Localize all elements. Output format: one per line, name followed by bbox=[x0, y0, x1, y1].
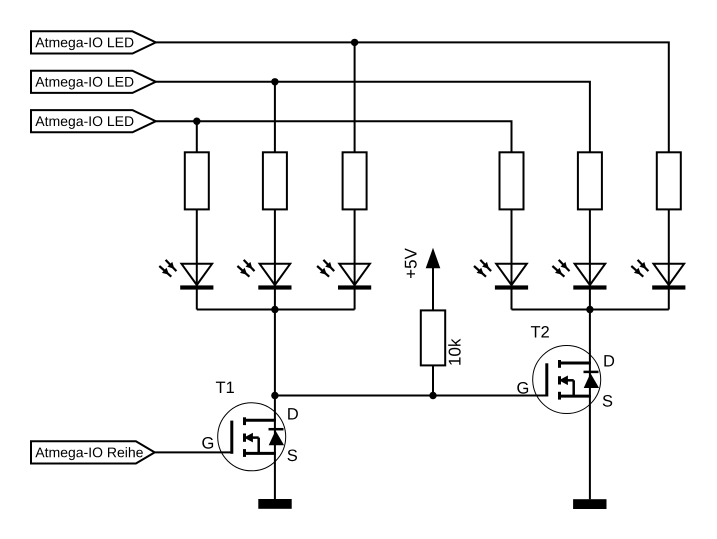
pin label S of T2 bbox=[603, 395, 613, 407]
LED D5 bbox=[552, 260, 606, 290]
junction row2/R2 bbox=[271, 78, 278, 85]
resistor R1 bbox=[185, 152, 209, 209]
junction 10k bottom node bbox=[429, 392, 436, 399]
resistor R4 bbox=[500, 152, 524, 209]
wire right bus down through T2 to ground bbox=[589, 310, 591, 500]
pin label D of T2 bbox=[604, 355, 614, 366]
pin label G of T1 bbox=[202, 437, 213, 449]
resistor R5 bbox=[578, 152, 602, 209]
junction T1 drain node bbox=[271, 392, 278, 399]
+5V supply symbol bbox=[405, 248, 441, 311]
junction row3/R1 bbox=[193, 118, 200, 125]
junction left bus / T1 drain column bbox=[271, 306, 278, 313]
resistor R3 bbox=[343, 152, 367, 209]
wire R1 bottom through LED D1 to bus bbox=[196, 209, 198, 309]
transistor T1 (N-MOSFET) bbox=[218, 403, 286, 471]
wire drop row1 to R3 bbox=[354, 42, 356, 152]
resistor R2 bbox=[263, 152, 287, 209]
wire flag4 to T1 gate bbox=[155, 451, 231, 453]
resistor R7 10k pull-up bbox=[421, 310, 461, 365]
ground under T1 bbox=[258, 499, 291, 509]
ground under T2 bbox=[573, 499, 606, 509]
wire left bus down through T1 to ground bbox=[274, 310, 276, 500]
LED D2 bbox=[237, 260, 291, 290]
wire row2: flag2 to R5 top bbox=[156, 82, 590, 153]
wire R5 bottom through LED D5 to bus bbox=[589, 209, 591, 309]
wire drop row2 to R2 bbox=[274, 82, 276, 153]
wire row3: flag3 to R4 top bbox=[156, 121, 512, 152]
resistor R6 bbox=[657, 152, 681, 209]
pin label G of T2 bbox=[517, 382, 528, 394]
junction right bus / T2 drain column bbox=[586, 306, 593, 313]
net label "Atmega-IO LED" (flag3) bbox=[31, 110, 156, 132]
LED D6 bbox=[631, 260, 685, 290]
wire R3 bottom through LED D3 to bus bbox=[354, 209, 356, 309]
wire row1: flag1 to R6 top bbox=[156, 42, 669, 152]
wire 10k bottom to mid wire bbox=[432, 365, 434, 395]
wire right LED cathode bus bbox=[512, 309, 669, 311]
pin label T1 of T1 bbox=[216, 382, 234, 393]
LED D1 bbox=[159, 260, 213, 290]
LED D3 bbox=[317, 260, 371, 290]
pin label D of T1 bbox=[288, 408, 298, 419]
wire R4 bottom through LED D4 to bus bbox=[511, 209, 513, 309]
junction row1/R3 bbox=[351, 39, 358, 46]
wire drop row3 to R1 bbox=[196, 121, 198, 152]
net label "Atmega-IO Reihe" (flag4) bbox=[31, 441, 155, 463]
pin label S of T1 bbox=[288, 450, 298, 462]
wire R2 bottom through LED D2 to bus bbox=[274, 209, 276, 309]
pin label T2 of T2 bbox=[531, 326, 549, 338]
LED D4 bbox=[474, 260, 528, 290]
wire T1 drain to 10k bottom to T2 gate bbox=[275, 395, 547, 397]
transistor T2 (N-MOSFET) bbox=[533, 346, 601, 414]
wire left LED cathode bus bbox=[197, 309, 355, 311]
net label "Atmega-IO LED" (flag1) bbox=[31, 31, 156, 53]
net label "Atmega-IO LED" (flag2) bbox=[31, 71, 156, 93]
wire R6 bottom through LED D6 to bus bbox=[668, 209, 670, 309]
